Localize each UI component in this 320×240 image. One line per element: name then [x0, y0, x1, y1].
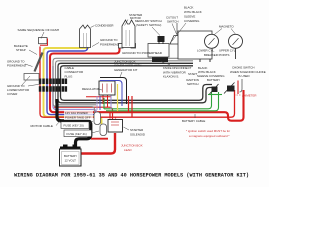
leader to condenser	[91, 26, 95, 28]
junction cover corner wires	[100, 78, 127, 112]
ignition switch symbols right	[208, 81, 238, 95]
leader motor cable	[56, 121, 60, 126]
svg-text:STRAP: STRAP	[16, 48, 26, 52]
red pair to solenoid area	[129, 96, 133, 117]
leader arrows to connector	[22, 76, 41, 86]
regulator box	[99, 81, 115, 95]
ignition coil symbol	[119, 20, 136, 48]
wire blue harness	[47, 47, 99, 125]
leader to ground strap	[25, 64, 33, 67]
red regulator feed	[86, 96, 111, 98]
svg-text:GROUND TO POWERHEAD: GROUND TO POWERHEAD	[122, 51, 163, 55]
svg-text:MOTOR CABLE: MOTOR CABLE	[31, 124, 53, 128]
cluster stubs	[103, 96, 108, 108]
fuse box 2	[64, 130, 92, 137]
red parallel to cable	[91, 138, 108, 140]
fuse capsule 1	[94, 112, 101, 125]
svg-text:BATTERY CABLE: BATTERY CABLE	[182, 119, 205, 123]
wire gray transom line 1	[53, 58, 193, 112]
points lever 1	[209, 38, 215, 45]
svg-text:SAME SEQUENCE OF DASH: SAME SEQUENCE OF DASH	[18, 28, 60, 32]
leader ground-to-powerhead text	[92, 43, 99, 47]
leader to terminal box	[41, 32, 44, 39]
wire dark transom line 3	[58, 63, 212, 103]
svg-text:12V 10A POWER: 12V 10A POWER	[65, 111, 88, 115]
leaders to breaker points	[214, 29, 236, 35]
purple+blue cluster drops	[96, 96, 98, 110]
label: power take off	[64, 110, 93, 120]
svg-text:POWER TAKE OFF: POWER TAKE OFF	[65, 116, 91, 120]
svg-text:SOLENOID: SOLENOID	[130, 132, 145, 136]
ammeter leader dashes	[234, 94, 241, 96]
thick red battery cable	[81, 133, 116, 154]
svg-text:LEAD: LEAD	[124, 148, 132, 152]
points lever 2	[233, 38, 239, 45]
leader fuse 2	[92, 131, 100, 133]
svg-text:12 VOLT: 12 VOLT	[65, 159, 77, 163]
svg-text:MAGNETO: MAGNETO	[219, 25, 234, 29]
leader to coil	[125, 20, 129, 26]
svg-text:CONDENSER: CONDENSER	[95, 24, 113, 28]
magneto plate box	[178, 31, 212, 59]
svg-text:KLAXON IS.: KLAXON IS.	[163, 75, 179, 79]
ground strap box	[24, 74, 39, 81]
wire purple	[53, 66, 97, 116]
svg-text:WIRING DIAGRAM FOR 1959-61 35: WIRING DIAGRAM FOR 1959-61 35 AND 40 HOR…	[14, 173, 249, 179]
thick black motor cable	[57, 99, 91, 147]
condenser symbol	[80, 25, 91, 48]
svg-text:AMMETER: AMMETER	[242, 94, 256, 98]
leader to junction cover	[120, 72, 122, 77]
knife disconnect blob	[152, 57, 168, 62]
leader to cutout	[172, 24, 177, 35]
motor cable label	[30, 122, 57, 128]
breaker points circle 2	[229, 34, 243, 48]
cable connector plug pins row2	[39, 86, 42, 92]
wire black sleeve vertical right	[240, 79, 243, 92]
red wire at terminal box	[40, 39, 48, 46]
leader to mercury switch	[152, 27, 160, 36]
wire red main	[50, 47, 244, 121]
breaker points circle 1	[205, 34, 219, 48]
wire green 2	[106, 92, 219, 111]
wire red secondary	[40, 47, 235, 118]
svg-text:PLUG: PLUG	[65, 74, 74, 78]
svg-text:START: START	[188, 72, 197, 76]
magneto plate legs	[200, 59, 210, 62]
svg-text:(SAFETY SWITCH): (SAFETY SWITCH)	[136, 23, 161, 27]
svg-text:BATTERY: BATTERY	[64, 154, 77, 158]
svg-text:SWITCH: SWITCH	[187, 82, 198, 86]
leader battery cable	[194, 114, 196, 118]
leader from black sleeve label	[172, 23, 186, 41]
starter solenoid box	[108, 120, 123, 133]
leader to solenoid	[124, 127, 130, 130]
wire red short	[54, 107, 113, 119]
wire magneto drop	[235, 48, 237, 59]
svg-text:POWERHEAD: POWERHEAD	[7, 64, 26, 68]
mercury switch housing box 2	[148, 44, 169, 58]
mercury switch legs	[159, 42, 163, 44]
svg-text:GENERATOR KIT: GENERATOR KIT	[114, 68, 138, 72]
wire dark transom line 4	[61, 66, 213, 101]
svg-text:JUNCTION BOX: JUNCTION BOX	[121, 144, 143, 148]
cutout stem	[176, 23, 178, 36]
svg-text:FUSE (KEY 41): FUSE (KEY 41)	[67, 132, 87, 136]
svg-text:SWITCH: SWITCH	[167, 20, 178, 24]
wire gray transom line 2	[56, 61, 194, 105]
leader to regulator	[98, 89, 102, 90]
wire yellow harness	[44, 48, 102, 124]
solenoid internals	[111, 122, 119, 125]
fuse capsule 2	[100, 124, 107, 136]
ground strap symbol	[35, 53, 43, 72]
svg-text:POWERHEAD: POWERHEAD	[100, 43, 119, 47]
svg-text:BATTERY: BATTERY	[207, 78, 220, 82]
svg-text:BLACK: BLACK	[184, 6, 194, 10]
svg-text:GROUND TO: GROUND TO	[100, 38, 118, 42]
red solenoid risers	[110, 112, 116, 118]
svg-text:IS USED: IS USED	[238, 74, 250, 78]
svg-text:COVER: COVER	[7, 92, 17, 96]
svg-text:* ignition switch used MUST be: * ignition switch used MUST be for	[186, 129, 230, 133]
leader to knife disconnect	[161, 62, 170, 65]
fuse box 1	[61, 122, 89, 129]
battery	[60, 145, 82, 167]
leader fuse 1	[89, 121, 93, 125]
regulator internals	[103, 84, 112, 93]
svg-text:FUSE (KEY 20): FUSE (KEY 20)	[64, 124, 84, 128]
svg-text:a magneto equipped outboard *: a magneto equipped outboard *	[189, 134, 230, 138]
svg-text:BREAKER POINTS: BREAKER POINTS	[204, 53, 229, 57]
wire green 1	[128, 92, 212, 109]
svg-text:COVERING: COVERING	[184, 19, 200, 23]
cable connector plug pins row1	[39, 79, 67, 92]
mercury switch	[158, 36, 165, 42]
leader to strap	[29, 50, 37, 55]
svg-text:WITH BLACK: WITH BLACK	[184, 10, 202, 14]
svg-text:REGULATOR: REGULATOR	[82, 87, 100, 91]
terminal box top-left	[39, 38, 48, 44]
svg-text:SLEEVE: SLEEVE	[184, 15, 195, 19]
wire green cluster	[104, 98, 128, 109]
